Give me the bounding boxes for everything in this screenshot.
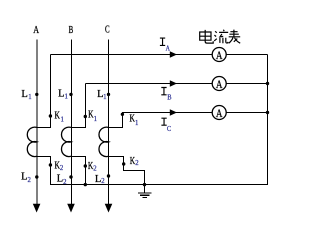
label L1 of T2 xyxy=(58,88,68,101)
transformer T2 primary terminal L1 dot (phase B) xyxy=(69,93,72,96)
label K2 of T2 xyxy=(88,160,97,172)
label L1 of T3 xyxy=(97,88,106,101)
label IA xyxy=(160,38,165,45)
svg-text:1: 1 xyxy=(135,120,138,127)
terminal K2 dot of T1 xyxy=(49,163,52,166)
ammeter PA2 xyxy=(212,77,226,91)
svg-text:1: 1 xyxy=(61,116,64,123)
wire IA from T1 K1 to ammeter PA1 xyxy=(50,54,212,56)
terminal K1 dot of T3 xyxy=(121,113,124,116)
label L2 of T3 xyxy=(95,173,105,185)
svg-text:A: A xyxy=(216,50,223,62)
wire phase A vertical conductor xyxy=(36,40,38,205)
arrow IC current direction xyxy=(170,109,177,115)
node A phase label xyxy=(33,24,39,36)
wire IA ammeter PA1 to right bus xyxy=(226,54,268,56)
terminal K2 dot of T3 xyxy=(122,162,125,165)
wire IB from T2 K1 to ammeter PA2 xyxy=(85,83,212,85)
wire phase B vertical conductor xyxy=(71,40,73,205)
transformer T3 secondary winding coil (phase C) xyxy=(99,127,109,156)
wire bottom common return bus xyxy=(50,184,267,186)
terminal K1 dot of T1 xyxy=(49,114,52,117)
wire T1 K1 lead xyxy=(37,55,51,128)
wire phase C vertical conductor xyxy=(108,40,110,205)
arrow IB current direction xyxy=(170,80,177,86)
label IC xyxy=(161,118,166,125)
svg-text:2: 2 xyxy=(63,179,67,186)
svg-text:1: 1 xyxy=(103,94,106,101)
svg-text:1: 1 xyxy=(94,116,97,123)
terminal K2 dot of T2 xyxy=(84,164,87,167)
ammeter PA1 xyxy=(212,48,226,62)
arrow IA current direction xyxy=(170,51,177,57)
arrow phase C bottom xyxy=(105,204,113,213)
wire IB ammeter PA2 to right bus xyxy=(226,83,268,85)
label IB xyxy=(161,88,166,95)
svg-text:K: K xyxy=(55,109,60,121)
transformer T3 primary terminal L2 dot (phase C) xyxy=(107,174,110,177)
transformer T1 primary terminal L1 dot (phase A) xyxy=(35,93,38,96)
label K1 of T3 xyxy=(130,112,139,126)
label K2 of T3 xyxy=(130,155,139,167)
transformer T1 secondary winding coil (phase A) xyxy=(27,127,37,156)
label L2 of T1 xyxy=(21,171,31,184)
label K2 of T1 xyxy=(55,160,64,172)
wire T1 K2 lead xyxy=(37,157,51,186)
junction dot ground node at bottom bus xyxy=(143,183,146,186)
wire T2 K2 lead xyxy=(72,157,86,186)
terminal K1 dot of T2 xyxy=(84,115,87,118)
wire right bus vertical xyxy=(267,55,269,186)
arrow phase B bottom xyxy=(67,204,75,213)
svg-text:B: B xyxy=(69,24,74,36)
label L1 of T1 xyxy=(21,88,31,101)
svg-text:1: 1 xyxy=(65,94,68,101)
label ammeter (dian liu biao) hand-drawn CJK xyxy=(200,30,241,44)
transformer T2 secondary winding coil (phase B) xyxy=(61,127,71,156)
svg-text:2: 2 xyxy=(60,165,64,172)
label K1 of T2 xyxy=(88,109,97,124)
arrow phase A bottom xyxy=(33,204,41,213)
svg-text:1: 1 xyxy=(28,94,31,101)
junction dot right bus at IB xyxy=(266,82,269,85)
wire T2 K1 lead xyxy=(72,84,86,128)
label L2 of T2 xyxy=(57,173,67,186)
svg-text:B: B xyxy=(167,95,172,102)
label K1 of T1 xyxy=(55,109,64,123)
ammeter PA3 xyxy=(212,106,226,120)
transformer T2 primary terminal L2 dot (phase B) xyxy=(69,175,72,178)
junction dot T2 K2 at bottom bus xyxy=(84,183,87,186)
wire IC from T3 K1 to ammeter PA3 xyxy=(122,112,212,114)
svg-text:2: 2 xyxy=(135,160,139,167)
node B phase label xyxy=(69,24,74,36)
svg-text:A: A xyxy=(216,108,223,120)
svg-text:2: 2 xyxy=(28,177,32,184)
ground symbol xyxy=(138,185,152,198)
svg-text:A: A xyxy=(33,24,39,36)
svg-text:C: C xyxy=(167,126,172,133)
svg-text:A: A xyxy=(216,79,223,91)
svg-text:A: A xyxy=(166,45,170,52)
wire T3 K1 lead xyxy=(109,113,123,128)
junction dot right bus at IC xyxy=(266,111,269,114)
transformer T3 primary terminal L1 dot (phase C) xyxy=(107,93,110,96)
svg-text:2: 2 xyxy=(93,165,97,172)
svg-text:L: L xyxy=(21,88,28,100)
wire T3 K2 lead xyxy=(109,157,145,186)
node C phase label xyxy=(105,24,110,36)
transformer T1 primary terminal L2 dot (phase A) xyxy=(35,175,38,178)
svg-text:C: C xyxy=(105,24,110,36)
wire IC ammeter PA3 to right bus xyxy=(226,112,268,114)
